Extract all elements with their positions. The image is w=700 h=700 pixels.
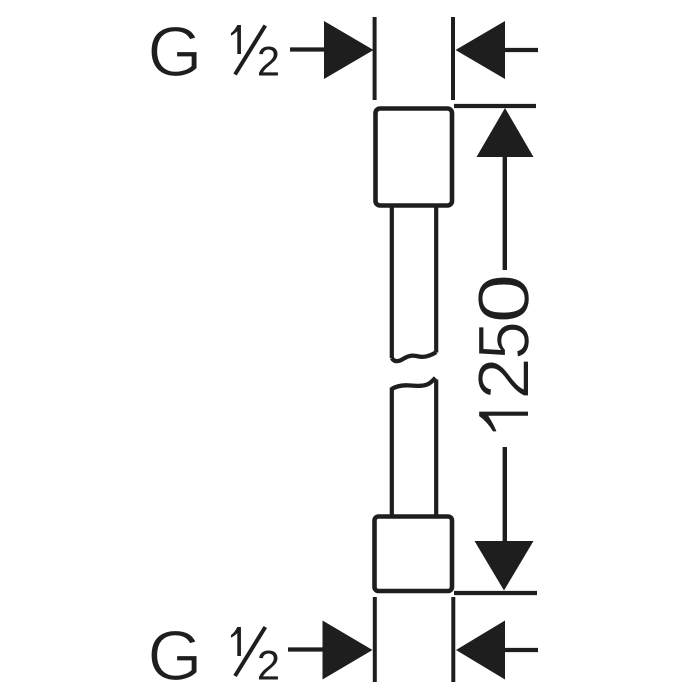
- top dimension leader line left: [290, 47, 326, 51]
- label G 1/2 top: fraction slash: [235, 26, 265, 75]
- hose top connector nut: [376, 109, 453, 206]
- label G 1/2 top: fraction numerator 1: [231, 25, 241, 54]
- top dimension leader line right: [503, 48, 538, 52]
- length dimension arrow up: [477, 108, 534, 157]
- hose tube lower segment right wall: [434, 380, 438, 517]
- label G 1/2 bottom: fraction denominator 2: [259, 650, 278, 679]
- hose tube lower segment left wall: [390, 388, 394, 517]
- top extension line right: [451, 17, 455, 100]
- hose tube upper segment left wall: [390, 207, 394, 358]
- hose tube upper segment right wall: [434, 207, 438, 353]
- bottom dimension leader line left: [288, 647, 324, 651]
- bottom dimension arrow right: [456, 621, 505, 680]
- hose tube lower break wave: [392, 378, 436, 389]
- top dimension arrow right: [456, 21, 506, 79]
- label G 1/2 bottom: letter G: [151, 630, 197, 680]
- label G 1/2 top: fraction denominator 2: [259, 46, 278, 75]
- length value 1250 digit 0: [478, 277, 529, 320]
- label G 1/2 bottom: fraction slash: [235, 627, 265, 676]
- hose tube upper break wave: [392, 352, 436, 361]
- length value 1250 digit 5: [479, 324, 530, 357]
- length value 1250 digit 2: [478, 361, 529, 396]
- bottom extension line left: [373, 597, 377, 682]
- length extension line bottom: [454, 591, 537, 595]
- top dimension arrow left: [324, 21, 374, 79]
- label G 1/2 top: letter G: [151, 26, 197, 76]
- hose bottom connector nut: [375, 517, 453, 592]
- length extension line top: [454, 104, 536, 108]
- length value 1250 digit 1: [479, 411, 529, 432]
- length dimension line upper segment: [503, 156, 507, 270]
- label G 1/2 bottom: fraction numerator 1: [231, 627, 241, 656]
- length dimension arrow down: [475, 541, 534, 591]
- length dimension line lower segment: [503, 447, 507, 542]
- bottom dimension leader line right: [503, 648, 538, 652]
- top extension line left: [373, 17, 377, 100]
- bottom extension line right: [451, 597, 455, 682]
- bottom dimension arrow left: [323, 621, 373, 680]
